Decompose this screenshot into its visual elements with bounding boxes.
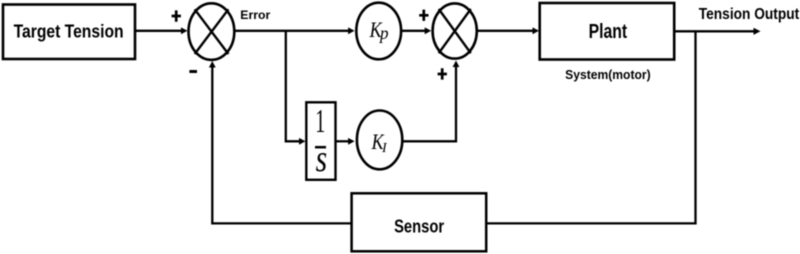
- block Sensor: [352, 193, 487, 251]
- wire Kp to summing junction 2: [402, 27, 431, 34]
- svg-text:Plant: Plant: [589, 20, 628, 43]
- svg-text:Error: Error: [240, 8, 270, 22]
- summing junction 1: [189, 3, 235, 60]
- svg-text:Target Tension: Target Tension: [14, 21, 124, 42]
- wire 1/s to KI: [336, 138, 355, 145]
- block 1/s integrator: [306, 102, 335, 180]
- svg-text:1: 1: [315, 103, 325, 140]
- svg-text:System(motor): System(motor): [565, 67, 651, 82]
- gain Kp: [356, 3, 401, 60]
- wire branch from Error node down to 1/s: [286, 31, 306, 145]
- feedback wire from output node down to Sensor: [487, 31, 696, 223]
- wire summing junction 2 to Plant: [478, 27, 540, 34]
- label System(motor): [565, 67, 651, 82]
- wire Target Tension to summing junction 1: [136, 27, 188, 34]
- block Plant: [540, 3, 675, 60]
- wire KI to summing junction 2: [403, 61, 459, 142]
- wire Error node to Kp: [235, 27, 355, 34]
- block Target Tension: [3, 5, 135, 60]
- plus sign at summing junction 2 lower input: [438, 68, 447, 79]
- svg-text:Sensor: Sensor: [394, 215, 445, 236]
- minus sign at summing junction 1 feedback input: [189, 70, 197, 73]
- feedback wire from Sensor to summing junction 1: [209, 61, 352, 223]
- svg-text:s: s: [316, 138, 328, 180]
- svg-text:Tension Output: Tension Output: [699, 6, 799, 23]
- gain KI: [357, 110, 402, 169]
- summing junction 2: [433, 3, 477, 58]
- wire Plant to Tension Output: [675, 28, 761, 35]
- svg-text:p: p: [378, 23, 389, 43]
- label Tension Output: [699, 6, 799, 23]
- plus sign at summing junction 1 input: [172, 10, 181, 21]
- plus sign at summing junction 2 upper input: [419, 10, 428, 21]
- node Error label: [240, 8, 270, 22]
